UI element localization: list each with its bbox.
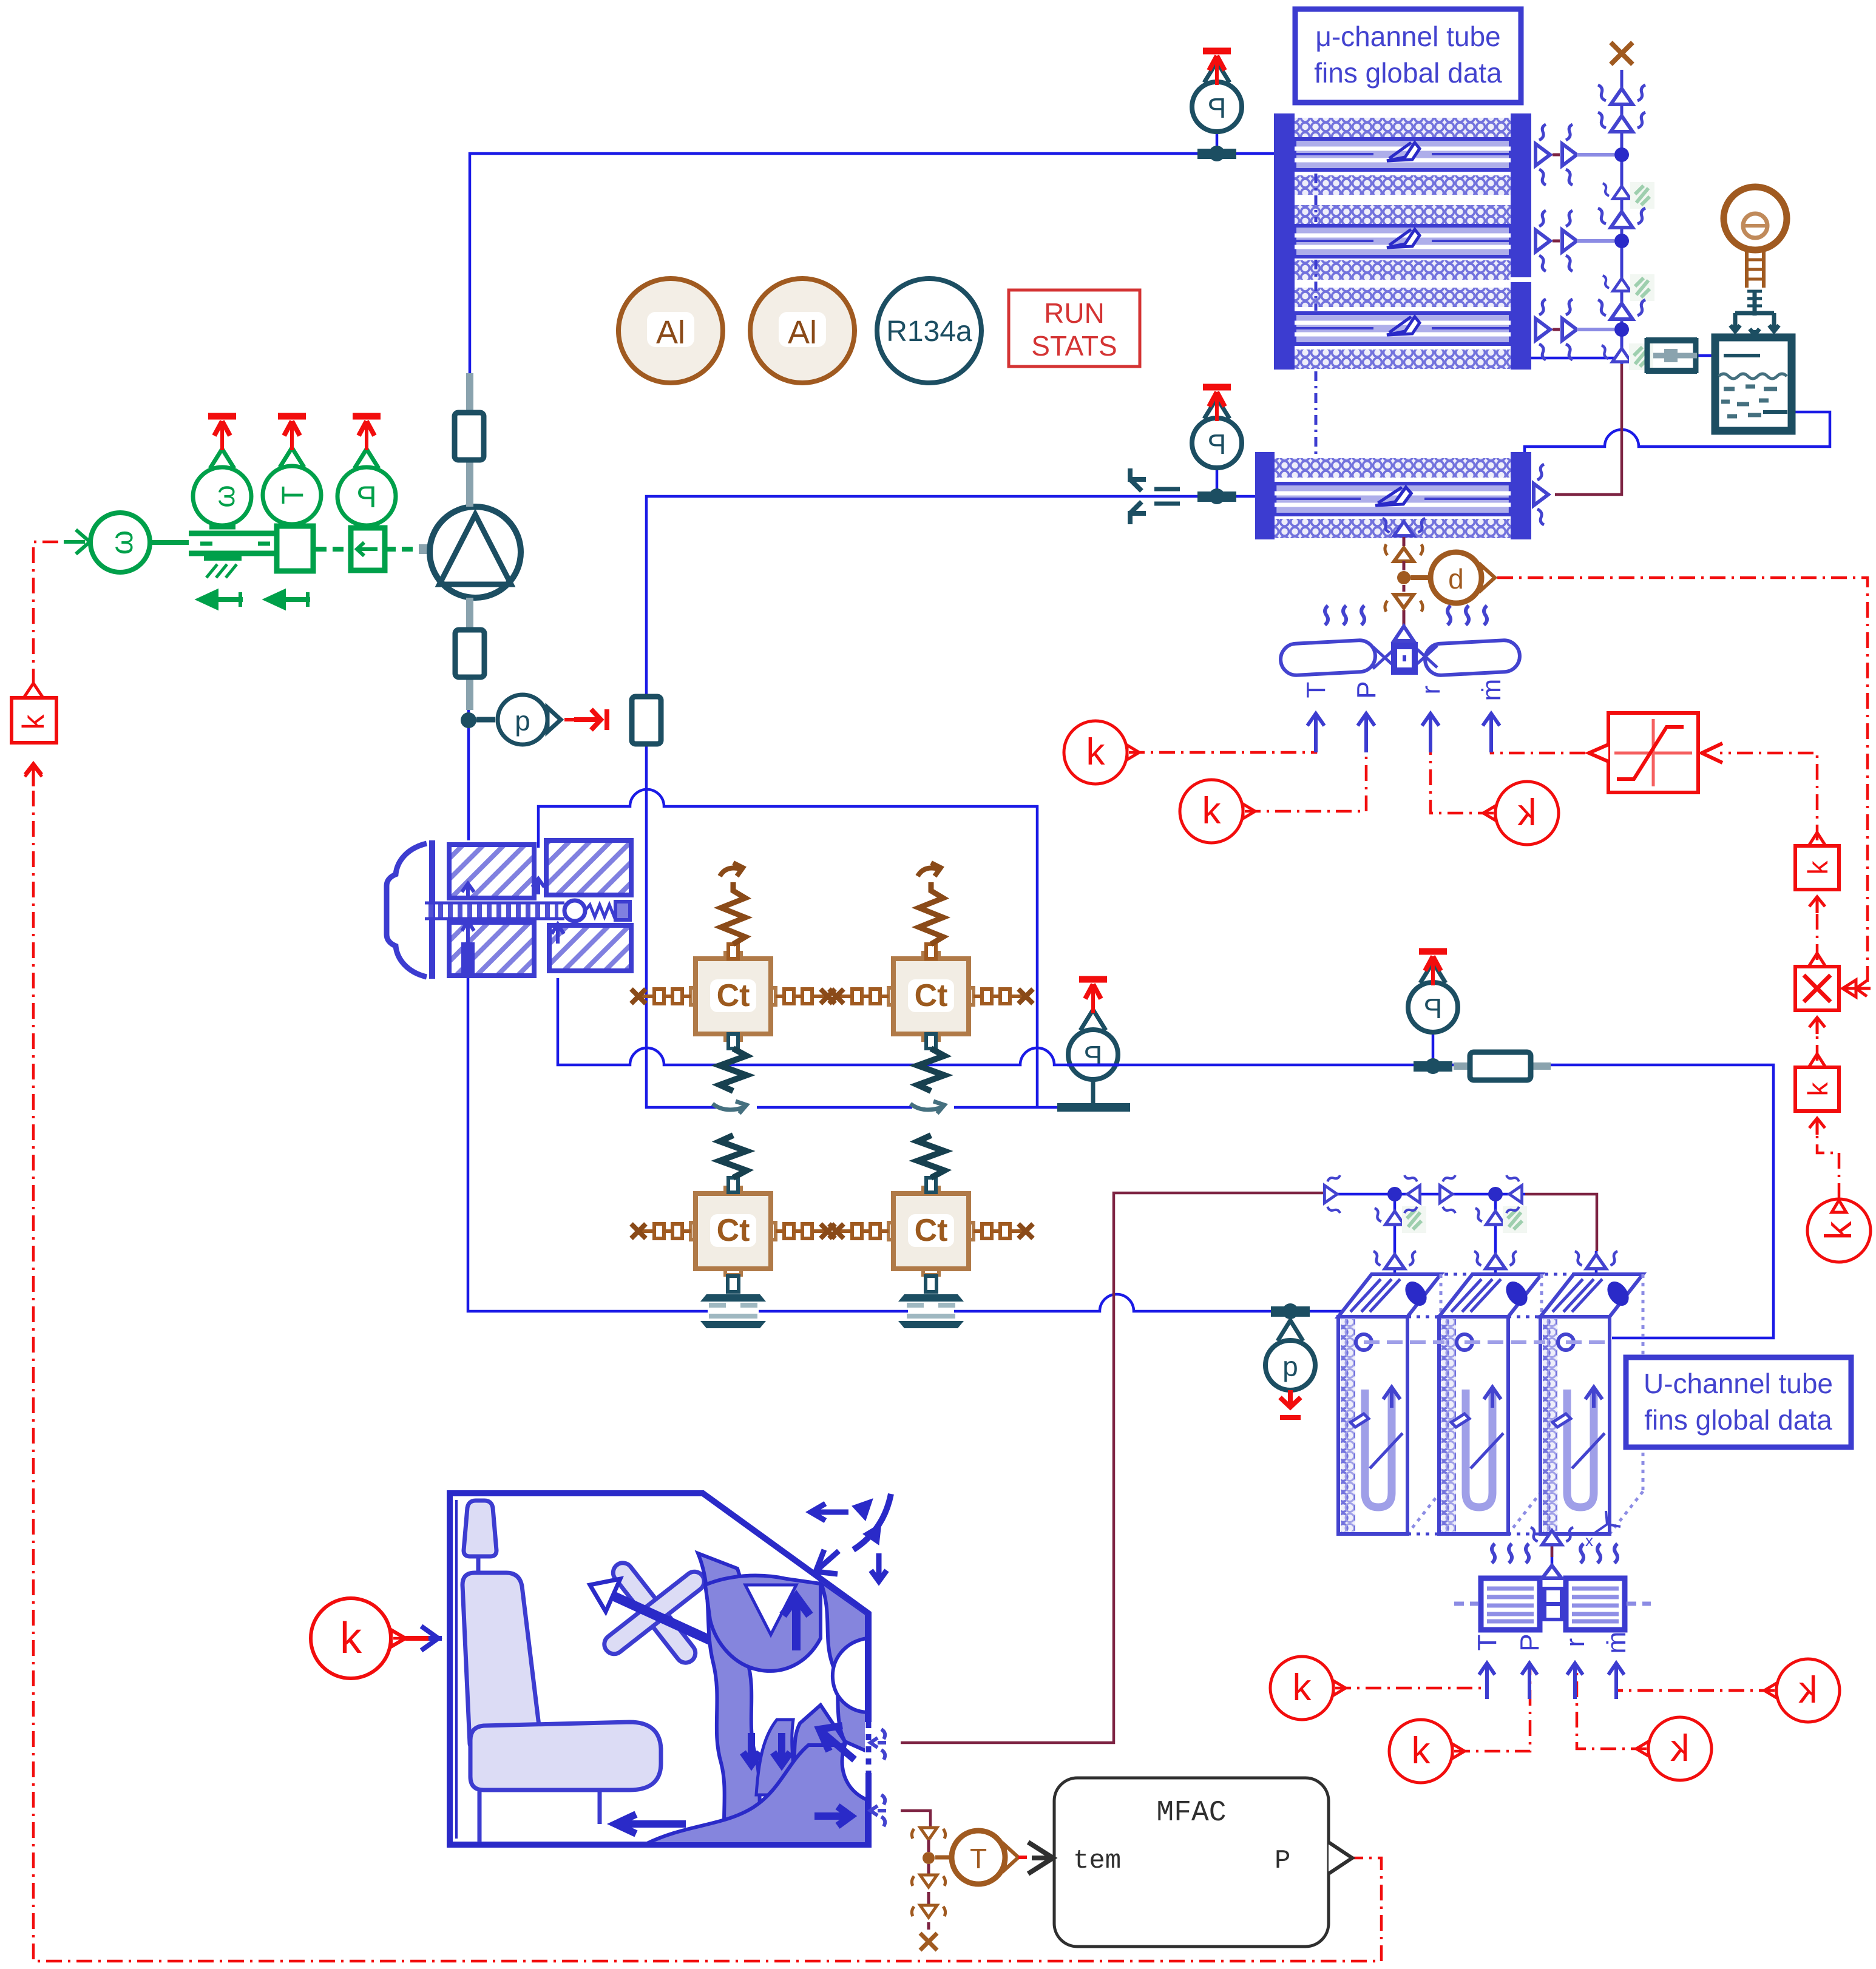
svg-text:P: P [1424, 993, 1443, 1024]
svg-text:k: k [340, 1614, 362, 1663]
label box U-channel tube fins global data [1626, 1357, 1851, 1447]
thermal node below tap 1 [912, 1875, 945, 1887]
chain thermal node 2a with attachment [1603, 183, 1641, 199]
temperature tap junction [923, 1852, 935, 1864]
chain junction row2 [1614, 234, 1629, 248]
thermal mass Ct lower left [691, 1187, 776, 1275]
cabin wall port squiggles lower [870, 1795, 886, 1826]
svg-text:T: T [1472, 1635, 1502, 1651]
wire moist air chain to condenser row 4 air port [1555, 364, 1622, 495]
svg-text:ṁ: ṁ [1477, 679, 1506, 701]
signal wire MFAC P output feedback loop (bottom + left edge) [33, 789, 1381, 1961]
red exhaust above omega sensor [208, 416, 236, 450]
air source cross [1611, 42, 1633, 64]
axis glyph [1585, 1511, 1620, 1550]
constant k1 (fan T) [1064, 721, 1139, 784]
chain bottom thermal node [1602, 345, 1642, 362]
junction node line A P tap [1414, 1061, 1452, 1072]
saturation block [1589, 713, 1722, 792]
svg-text:b: b [1448, 563, 1464, 595]
svg-text:U-channel tube: U-channel tube [1644, 1368, 1833, 1399]
pressure gauge P3 (plenum, on line A) [1057, 979, 1130, 1112]
svg-text:MFAC: MFAC [1156, 1797, 1226, 1829]
signal wire k circle to lower k square [1817, 1118, 1839, 1199]
speed sensor omega [193, 425, 251, 527]
wire condenser subcooled outlet to expansion line [646, 496, 1255, 1107]
flow gauge at evaporator inlet [1265, 1320, 1315, 1417]
signal wire gain k output to speed source [33, 542, 79, 684]
thermal chain terminator X [920, 1933, 937, 1950]
receiver inlet valve [1646, 338, 1697, 373]
slab air stems thermal nodes [1375, 1208, 1415, 1224]
multiplier block [1795, 953, 1871, 1034]
wire evaporator slab air stems [1395, 1194, 1596, 1277]
chain thermal node 1a [1598, 85, 1645, 104]
constant k2 (fan P) [1180, 780, 1255, 843]
signal wire k5 to blower P input [1454, 1666, 1530, 1751]
condenser fins strips upper block [1295, 118, 1511, 369]
red exhaust above P sensor [353, 416, 381, 450]
svg-text:fins global data: fins global data [1644, 1404, 1832, 1436]
fan hub [1391, 642, 1418, 675]
svg-text:μ-channel tube: μ-channel tube [1315, 21, 1500, 52]
air port pair row 3 [1536, 299, 1577, 360]
svg-text:P: P [1275, 1846, 1290, 1876]
air port row 4 [1534, 464, 1548, 525]
condenser tube row 3 [1295, 313, 1511, 344]
svg-text:q: q [515, 705, 530, 737]
wire evaporator air outlet to cabin inlet [901, 1193, 1335, 1743]
condenser row 4 right header [1511, 452, 1531, 539]
brown convection spring above Ct upper left [720, 863, 745, 959]
conduction chains lower right Ct [829, 1224, 889, 1238]
condenser tube row 2 [1295, 226, 1511, 257]
torque meter block [277, 526, 313, 571]
temperature sensor T on shaft [263, 425, 321, 524]
junction node evaporator air manifold 1 [1387, 1187, 1402, 1201]
fan blades [1280, 640, 1521, 676]
crossing arrow right on plenum line [910, 1101, 944, 1113]
pressure gauge P2 (condenser outlet) [1192, 387, 1242, 468]
signal wire k1 to fan T input [1129, 726, 1316, 752]
svg-text:Al: Al [788, 314, 817, 351]
svg-text:RUN: RUN [1044, 297, 1105, 329]
blower left block [1481, 1578, 1540, 1630]
cabin right wall vent dashes [865, 1722, 872, 1773]
signal wire cabin k to cabin wall [393, 1637, 432, 1640]
tank filler manifold [1730, 291, 1779, 335]
blower input arrows [1479, 1663, 1624, 1699]
pressure gauge P4 (evaporator feed) [1408, 951, 1458, 1032]
thermal mass Ct upper left [691, 953, 776, 1040]
condenser tube row 1 [1295, 139, 1511, 170]
svg-text:STATS: STATS [1031, 330, 1117, 362]
condenser upper block left header [1274, 113, 1295, 370]
wire compressor suction from TXV [467, 598, 470, 840]
signal wire saturation output to fan mass flow input [1491, 726, 1585, 753]
run statistics block [1009, 290, 1140, 366]
blower axis dashes [1454, 1602, 1651, 1606]
condenser internal pass links [1315, 174, 1318, 481]
junction node evaporator air manifold 2 [1488, 1187, 1503, 1201]
junction node condenser outlet P tap [1197, 491, 1236, 502]
svg-text:k: k [1802, 1082, 1834, 1096]
junction node compressor suction [461, 712, 476, 728]
wire compressor discharge to condenser inlet [470, 154, 1274, 513]
shaft segment [150, 540, 189, 545]
brown convection spring above Ct upper right [918, 863, 943, 959]
slab bottom dotted line [1407, 1533, 1610, 1536]
gain square k lower [1795, 1054, 1839, 1135]
gain block k (left edge) [12, 683, 56, 786]
receiver drier tank [1715, 337, 1792, 431]
wire pressure gauge stem line A [1432, 1032, 1435, 1066]
pressure gauge P1 (condenser inlet) [1192, 51, 1242, 132]
constant k4 (blower T) [1270, 1657, 1346, 1720]
orifice on line A [1454, 1052, 1551, 1080]
svg-text:ω: ω [104, 530, 140, 555]
recirculation diagonal arrow [819, 1726, 855, 1760]
windshield defrost jets [811, 1494, 891, 1581]
signal wire lower k square to multiplier [1816, 1017, 1819, 1061]
steering wheel [569, 1528, 740, 1698]
wall plate on pipe below Ct lower-left [700, 1276, 766, 1328]
signal wire k6 to blower r input [1577, 1666, 1647, 1749]
conduction chains upper left Ct [631, 989, 691, 1004]
displacement arrows under shaft [200, 592, 310, 607]
seat backrest [462, 1573, 540, 1755]
conduction chains upper right Ct [829, 989, 889, 1004]
wire air chain to receiver valve [1531, 356, 1719, 358]
dashboard foot arrow right [814, 1806, 851, 1826]
dashboard down arrows [743, 1733, 790, 1765]
signal wire k3 to fan r input [1431, 726, 1494, 813]
svg-text:P: P [1084, 1040, 1103, 1072]
cabin inner wall line [455, 1500, 458, 1839]
rotary speed source omega [64, 513, 150, 572]
constant k6 (blower r, mirrored) [1636, 1717, 1712, 1780]
svg-text:x: x [1585, 1532, 1593, 1550]
signal wire multiplier to k square [1816, 897, 1819, 960]
wire evaporator air manifold to slab 3 [1525, 1194, 1597, 1251]
four-way restriction on condenser outlet [1130, 468, 1180, 524]
blower hub column [1542, 1587, 1565, 1621]
teal spring Ct upper-right to line [918, 1034, 944, 1091]
signal wire k square to saturation input [1720, 753, 1817, 840]
brown pressure gauge on tank [1724, 187, 1787, 288]
chain thermal node 1b [1598, 112, 1645, 132]
air port pair row 2 [1536, 211, 1577, 271]
material property Al 1 [618, 279, 723, 383]
gain square k upper [1795, 833, 1839, 913]
junction node condenser inlet P tap [1197, 149, 1236, 159]
slab top back dotted line [1372, 1274, 1574, 1317]
svg-text:q: q [1282, 1351, 1298, 1382]
material property Al 2 [750, 279, 855, 383]
compressor [419, 507, 521, 598]
fan heat squiggles left [1325, 606, 1364, 625]
cabin wall port squiggles upper [870, 1729, 886, 1760]
fan torque junction [1397, 571, 1410, 584]
fan top port triangle [1394, 626, 1414, 641]
chain thermal node 2b [1598, 208, 1645, 228]
evaporator bottom port node [1531, 1527, 1573, 1545]
teal spring line to Ct lower-left [720, 1135, 747, 1192]
wire receiver outlet loop to condenser row 4 [1525, 412, 1830, 454]
svg-text:R134a: R134a [886, 316, 972, 348]
dashboard vent up arrow [783, 1597, 810, 1650]
evaporator air outlet node pairs on manifold [1324, 1175, 1340, 1213]
blower top port triangle [1542, 1565, 1562, 1578]
svg-text:T: T [276, 486, 310, 505]
thermal mass Ct lower right [889, 1187, 974, 1275]
thermal mass Ct upper right [889, 953, 974, 1040]
brown chain node above fan junction [1385, 544, 1423, 561]
svg-text:ω: ω [209, 485, 241, 507]
chain thermal node 3a with attachment [1603, 275, 1641, 291]
row4 bottom air port [1383, 518, 1425, 536]
wire blower to evaporator stem [1551, 1530, 1554, 1578]
moist air chain line [1620, 70, 1624, 364]
wire TXV sensing line up over to plenum [538, 789, 1037, 1107]
floor arrow left [615, 1814, 686, 1834]
evaporator slab 3 [1540, 1274, 1643, 1534]
wire blower air stub [1551, 1546, 1554, 1557]
flow gauge at suction junction [476, 695, 607, 745]
signal wire k7 to blower mass flow input [1616, 1666, 1775, 1690]
condenser row 4 left header [1255, 452, 1275, 539]
rotary bearing with support [189, 533, 274, 578]
svg-text:T: T [970, 1843, 987, 1874]
junction node evaporator inlet q tap [1271, 1306, 1310, 1317]
constant k5 (blower P) [1389, 1720, 1465, 1783]
cabin temperature sensor T [935, 1831, 1027, 1884]
wire pressure gauge stem mid [1216, 468, 1219, 496]
dashboard HVAC mass [645, 1553, 867, 1845]
svg-text:P: P [1208, 92, 1227, 124]
red exhaust above T sensor [278, 416, 306, 450]
svg-text:r: r [1560, 1638, 1590, 1647]
evaporator slab 2 [1439, 1274, 1542, 1534]
gear ratio block with arrow [351, 528, 385, 570]
MFAC controller block [1028, 1778, 1352, 1947]
svg-text:r: r [1416, 686, 1446, 695]
svg-text:k: k [1802, 860, 1834, 875]
seat legs [479, 1790, 600, 1842]
svg-text:P: P [1352, 681, 1381, 698]
teal spring Ct upper-left to line [720, 1034, 747, 1091]
wire evaporator air manifold [1335, 1193, 1525, 1196]
TXV thermostatic expansion valve [387, 840, 631, 979]
svg-text:ṁ: ṁ [1602, 1632, 1631, 1654]
blower heat squiggles [1492, 1544, 1617, 1563]
condenser row 4 fins [1275, 458, 1511, 478]
brown chain node below fan junction [1385, 595, 1423, 612]
wire TXV outlet down to evaporator return line [468, 978, 1343, 1311]
svg-text:k: k [16, 714, 50, 730]
signal wire k4 to blower T input [1335, 1666, 1487, 1688]
steering column arrow [613, 1596, 770, 1667]
blower right block [1566, 1578, 1625, 1630]
signal wire torque sensor to multiplier [1497, 578, 1868, 988]
svg-text:Al: Al [656, 314, 685, 351]
chain junction row3 [1614, 322, 1629, 337]
label box mu-channel tube fins global data [1295, 9, 1521, 103]
evaporator slab 1 [1338, 1274, 1441, 1534]
svg-text:T: T [1301, 682, 1331, 698]
constant k cabin heat load [311, 1598, 442, 1678]
inter-slab refrigerant links [1364, 1340, 1610, 1344]
air port pair row 1 [1536, 124, 1577, 185]
chain thermal node 3b [1598, 300, 1645, 319]
wire TXV to evaporator feed line [558, 978, 1773, 1338]
chain junction row1 [1614, 147, 1629, 162]
blower input labels [1472, 1632, 1631, 1654]
wire pressure gauge stem top [1216, 132, 1219, 154]
pipe below compressor [455, 598, 484, 710]
constant k3 (fan r, mirrored) [1483, 782, 1559, 845]
torque sensor on fan shaft [1410, 552, 1495, 603]
wire flow gauge stem at evaporator inlet [1289, 1311, 1292, 1338]
seat headrest [464, 1501, 496, 1556]
crossing arrow left on plenum line [713, 1101, 747, 1113]
thermal node below tap 2 [912, 1905, 945, 1917]
pipe above compressor [455, 373, 484, 507]
constant k7 (blower m, mirrored) [1764, 1659, 1840, 1722]
shaft link dashes [316, 547, 425, 552]
svg-text:fins global data: fins global data [1314, 57, 1502, 89]
fan heat squiggles right [1448, 606, 1487, 625]
svg-text:P: P [1515, 1633, 1545, 1651]
condenser upper block right header [1511, 113, 1531, 277]
svg-text:P: P [356, 480, 376, 514]
wire cabin air return to temperature tap [901, 1811, 930, 1839]
cabin temperature tap thermal node upper [912, 1828, 945, 1840]
fan input arrows [1307, 714, 1500, 752]
pipe on liquid line [632, 697, 661, 744]
signal wire k2 to fan P input [1245, 726, 1366, 811]
svg-text:k: k [1818, 1221, 1860, 1240]
svg-text:tem: tem [1073, 1846, 1121, 1876]
wall plate on pipe below Ct lower-right [898, 1276, 964, 1328]
svg-text:P: P [1208, 428, 1227, 460]
condenser row 4 tube [1275, 484, 1511, 515]
cabin shell [450, 1493, 869, 1845]
wire fan shaft stem [1403, 613, 1406, 644]
power sensor P on shaft [337, 425, 396, 525]
seat cushion [470, 1722, 661, 1790]
teal spring line to Ct lower-right [918, 1135, 944, 1192]
conduction chains lower left Ct [631, 1224, 691, 1238]
refrigerant property R134a [877, 279, 981, 383]
fan input labels T P r m [1301, 679, 1506, 701]
constant k source (right column) [1807, 1199, 1871, 1262]
